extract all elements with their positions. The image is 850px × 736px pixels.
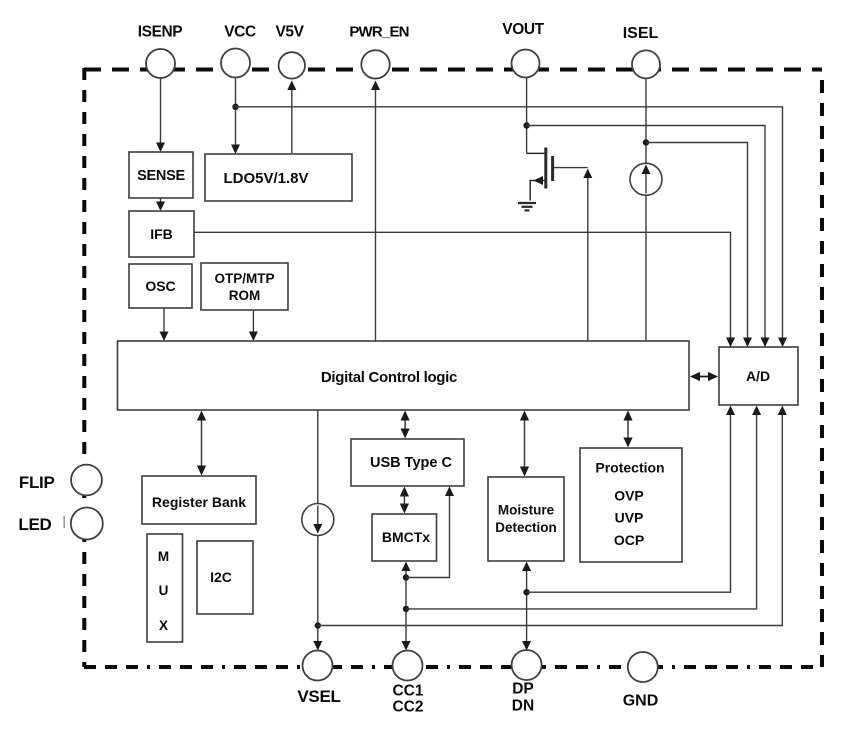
wire VCC to LDO xyxy=(231,77,240,154)
wire OSC to Digital Control logic xyxy=(160,308,169,341)
junction dot CC lower node xyxy=(403,606,409,612)
current source I2 on VSEL line xyxy=(302,504,334,536)
wire CC node to USB Type C bottom xyxy=(406,487,454,578)
current source I1 on ISEL line xyxy=(630,163,662,195)
wire ISEL node to A/D top xyxy=(646,143,752,348)
svg-text:CC2: CC2 xyxy=(392,699,423,716)
pin VOUT xyxy=(502,21,544,78)
pin CC1 CC2 xyxy=(392,651,423,716)
junction dot VOUT node xyxy=(523,122,529,128)
pin DP DN xyxy=(512,650,542,715)
svg-text:OCP: OCP xyxy=(614,532,644,548)
wire CC1 CC2 pin to BMCTx xyxy=(402,562,411,651)
svg-text:I2C: I2C xyxy=(210,569,232,585)
svg-text:OVP: OVP xyxy=(614,488,644,504)
pin ISEL xyxy=(623,25,660,78)
junction dot CC upper node xyxy=(403,574,409,580)
svg-text:ISEL: ISEL xyxy=(623,25,659,42)
double arrow Digital Control logic to USB Type C xyxy=(401,411,410,439)
wire DP DN pin to Moisture Detection xyxy=(522,562,531,651)
svg-text:OTP/MTP: OTP/MTP xyxy=(215,271,275,286)
wire SENSE to IFB xyxy=(156,198,165,211)
block Digital Control logic xyxy=(118,341,690,410)
pin VCC xyxy=(221,24,256,78)
block Protection OVP UVP OCP xyxy=(580,448,682,562)
wire Digital Control logic to VSEL pin xyxy=(313,410,322,651)
pin VSEL xyxy=(297,651,340,707)
block USB Type C xyxy=(351,439,464,486)
wire VOUT node to A/D top xyxy=(527,126,770,348)
pin LED xyxy=(18,508,102,540)
double arrow Digital Control logic to Moisture Detection xyxy=(520,411,529,477)
ground xyxy=(518,203,536,210)
double arrow USB Type C to BMCTx xyxy=(400,487,409,514)
svg-text:LED: LED xyxy=(18,515,51,534)
svg-text:USB Type C: USB Type C xyxy=(370,455,452,471)
svg-text:V5V: V5V xyxy=(275,24,304,41)
tick mark left of LED pin xyxy=(63,516,65,528)
svg-text:UVP: UVP xyxy=(615,510,644,526)
svg-text:PWR_EN: PWR_EN xyxy=(349,24,408,41)
wire gate of M1 to Digital Control logic xyxy=(554,168,592,341)
svg-text:U: U xyxy=(159,583,169,598)
wire DP node to A/D bottom xyxy=(527,406,735,593)
svg-text:DN: DN xyxy=(512,698,534,715)
pin FLIP xyxy=(19,465,102,496)
pin ISENP xyxy=(138,24,183,79)
svg-text:Register Bank: Register Bank xyxy=(152,494,246,510)
block OSC xyxy=(129,264,192,308)
pin GND xyxy=(623,652,659,710)
svg-text:A/D: A/D xyxy=(746,368,770,384)
svg-text:DP: DP xyxy=(512,681,534,698)
wire VSEL node to A/D bottom xyxy=(318,406,787,626)
wire VCC node to A/D top xyxy=(236,107,788,347)
pin PWR_EN xyxy=(349,24,408,79)
svg-text:X: X xyxy=(159,618,168,633)
junction dot ISEL node xyxy=(643,139,649,145)
svg-text:Digital Control logic: Digital Control logic xyxy=(321,369,457,386)
wire CC node to A/D bottom xyxy=(406,406,761,609)
block LDO5V/1.8V xyxy=(205,154,352,201)
svg-text:M: M xyxy=(158,549,169,564)
chip boundary dashed border xyxy=(84,68,822,667)
wire VOUT pin down xyxy=(526,78,528,153)
block I2C xyxy=(197,541,253,614)
svg-text:CC1: CC1 xyxy=(392,683,423,700)
svg-text:FLIP: FLIP xyxy=(19,473,55,492)
svg-text:LDO5V/1.8V: LDO5V/1.8V xyxy=(223,170,308,187)
block BMCTx xyxy=(372,514,437,561)
svg-text:SENSE: SENSE xyxy=(137,168,185,184)
svg-text:ROM: ROM xyxy=(229,288,261,303)
block MUX xyxy=(147,534,183,642)
wire LDO to V5V pin xyxy=(287,81,296,154)
junction dot VSEL node xyxy=(315,622,321,628)
junction dot DP node xyxy=(523,589,529,595)
wire ISENP to SENSE xyxy=(156,78,165,152)
double arrow Digital Control logic to Protection xyxy=(623,411,632,448)
svg-text:IFB: IFB xyxy=(150,226,173,242)
svg-text:ISENP: ISENP xyxy=(138,24,183,41)
double arrow Digital Control logic to Register Bank xyxy=(197,411,206,476)
transistor M1 (pass FET at VOUT) xyxy=(527,148,553,201)
svg-text:VCC: VCC xyxy=(224,24,256,41)
svg-text:Protection: Protection xyxy=(595,460,664,476)
wire OTP ROM to Digital Control logic xyxy=(249,310,258,341)
svg-text:OSC: OSC xyxy=(145,278,175,294)
BOXES placeholder xyxy=(0,0,1,1)
junction dot VCC node xyxy=(232,104,238,110)
block IFB xyxy=(129,211,194,257)
svg-text:GND: GND xyxy=(623,693,659,710)
block A/D xyxy=(719,347,798,405)
block SENSE xyxy=(129,152,193,198)
svg-text:VOUT: VOUT xyxy=(502,21,544,38)
block OTP/MTP ROM xyxy=(201,263,288,310)
block Moisture Detection xyxy=(488,477,564,561)
svg-text:VSEL: VSEL xyxy=(297,687,340,706)
svg-text:BMCTx: BMCTx xyxy=(382,529,430,545)
pin V5V xyxy=(275,24,305,79)
block Register Bank xyxy=(142,476,256,524)
svg-text:Detection: Detection xyxy=(495,520,557,535)
wire IFB to A/D top xyxy=(194,232,735,347)
wire ISEL pin down through current source to Digital Control logic xyxy=(645,79,647,341)
double arrow Digital Control logic to A/D xyxy=(690,372,718,381)
wire PWR_EN to Digital Control logic xyxy=(371,81,380,342)
svg-text:Moisture: Moisture xyxy=(498,503,555,518)
